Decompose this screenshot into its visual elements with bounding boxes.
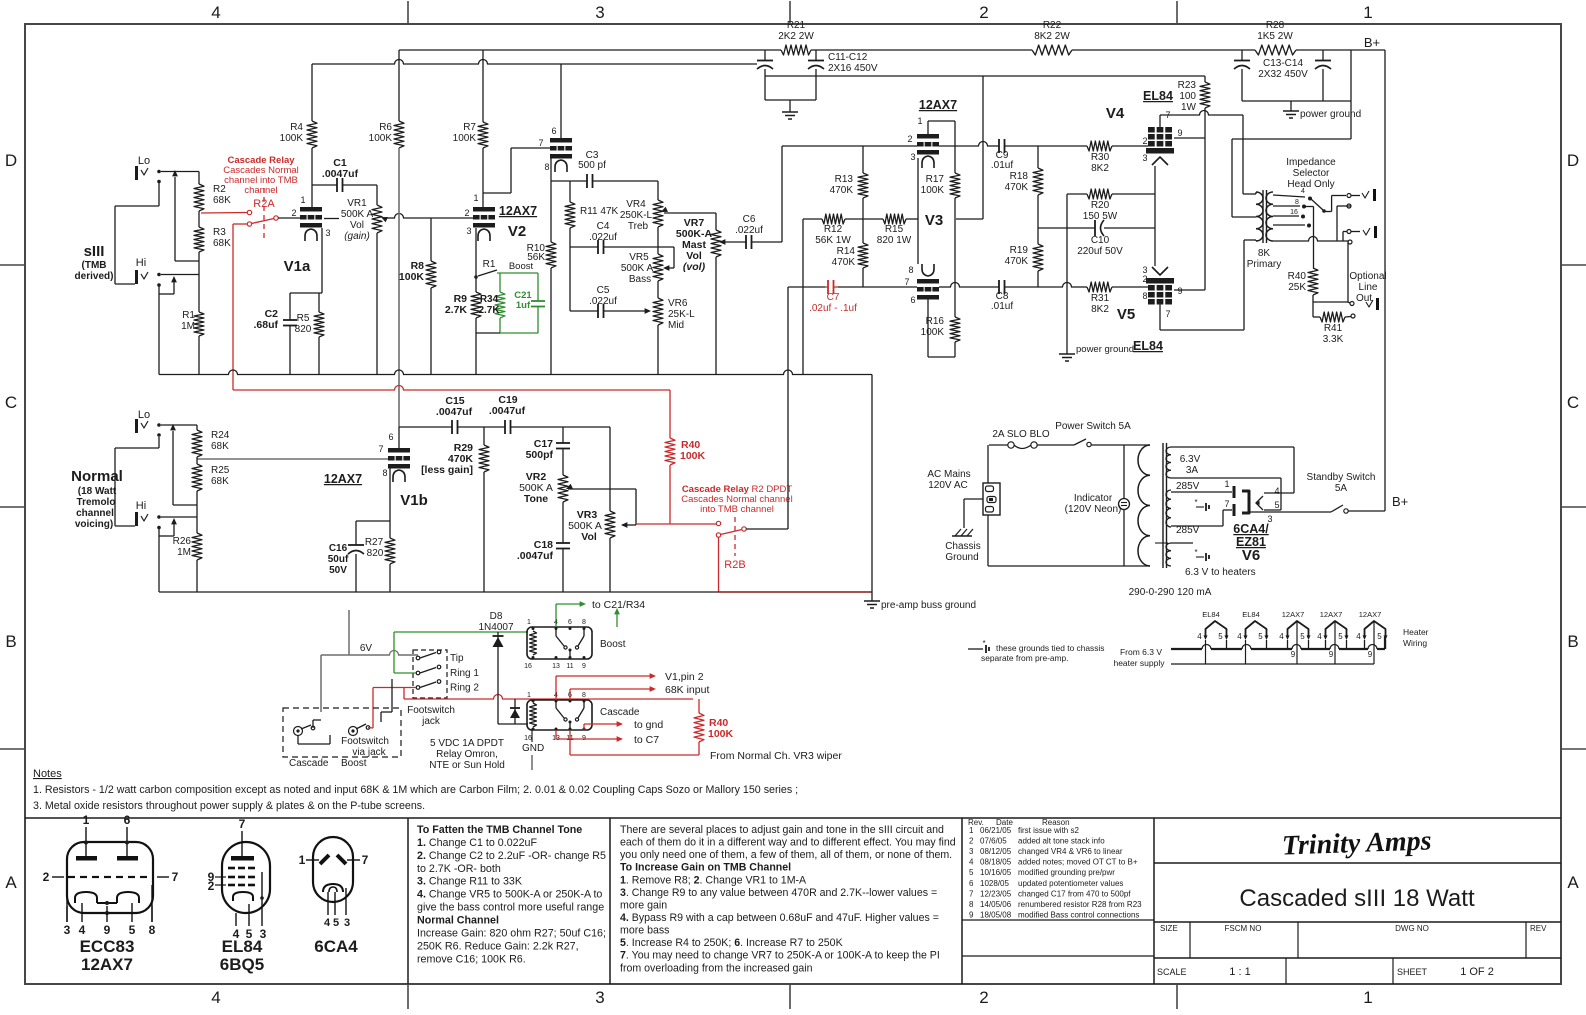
svg-text:1: 1 [527,619,531,626]
svg-text:16: 16 [524,663,532,670]
wire R2B common down [718,537,720,592]
resistor R3 [198,211,200,227]
capacitor C2 [289,293,291,320]
svg-text:56K: 56K [527,252,545,263]
svg-text:to C7: to C7 [634,734,659,746]
svg-text:A: A [5,873,17,892]
resistor R12 [803,218,822,220]
svg-text:R1: R1 [483,259,496,270]
svg-text:2: 2 [979,988,988,1007]
svg-text:Increase Gain: 820 ohm R27; 50: Increase Gain: 820 ohm R27; 50uf C16; [417,927,606,939]
relay Boost [527,627,592,659]
svg-text:5: 5 [1258,632,1263,641]
svg-text:AC Mains: AC Mains [927,469,970,480]
svg-text:06/21/05: 06/21/05 [980,826,1012,835]
svg-text:R30: R30 [1091,152,1110,163]
svg-text:100K: 100K [453,133,477,144]
HV center tap [1196,506,1204,508]
svg-text:B+: B+ [1392,494,1408,509]
wire shorting arrow 1 [174,177,176,261]
resistor R9 [475,277,477,292]
wire boost green [497,272,538,274]
svg-text:renumbered resistor R28 from R: renumbered resistor R28 from R23 [1018,900,1142,909]
svg-text:Tip: Tip [450,653,464,664]
ground chassis [952,535,972,537]
svg-text:(gain): (gain) [344,231,370,242]
svg-text:From Normal Ch. VR3 wiper: From Normal Ch. VR3 wiper [710,750,842,762]
transformer OT primary [1256,192,1263,241]
svg-text:4: 4 [969,858,974,867]
wire V1b cathode [389,468,391,538]
resistor R10 [550,181,552,242]
lamp indicator [1123,445,1125,498]
grounds note [968,648,983,650]
arrow boost up green [616,612,618,627]
resistor R20 [1067,193,1087,195]
svg-text:separate from pre-amp.: separate from pre-amp. [981,653,1069,663]
svg-text:7: 7 [969,889,974,898]
svg-text:3: 3 [466,226,471,236]
resistor R5 [318,293,320,312]
svg-text:There are several places to ad: There are several places to adjust gain … [620,824,944,836]
svg-text:REV: REV [1530,924,1547,933]
svg-text:.0047uf: .0047uf [436,406,473,418]
resistor R40 25K [1308,268,1318,295]
svg-text:3: 3 [1142,153,1147,163]
svg-text:SIZE: SIZE [1160,924,1178,933]
svg-text:3: 3 [325,228,330,238]
svg-text:Footswitch: Footswitch [341,736,389,747]
capacitor C19 [504,420,506,434]
svg-text:R12: R12 [824,224,843,235]
svg-text:Selector: Selector [1293,168,1330,179]
wire 6V feed [348,610,350,655]
wire V3 cathode column [917,158,919,264]
wire C4 to VR5 wiper [673,247,675,268]
svg-text:sIII: sIII [84,243,105,260]
svg-text:2. Change C2 to 2.2uF -OR- ch: 2. Change C2 to 2.2uF -OR- change R5 [417,850,606,862]
svg-text:500K A: 500K A [341,209,374,220]
wire red ring2 [373,687,416,689]
wire shorting arrow 2 N [173,523,175,536]
svg-text:(TMB: (TMB [82,260,107,271]
screen supply rail [765,75,1205,77]
capacitor C17 [562,427,564,443]
svg-text:500 pf: 500 pf [578,160,606,171]
resistor R13 [862,146,864,173]
wire C15 C19 [458,426,506,428]
resistor R18 [1037,146,1039,168]
capacitor C1 [312,184,337,186]
resistor R15 [883,214,906,224]
triode V2 cathode follower [550,138,572,143]
svg-text:(vol): (vol) [683,261,706,273]
svg-text:R14: R14 [837,246,856,257]
svg-text:6V: 6V [360,643,373,654]
triode V1b [388,448,410,453]
svg-text:7: 7 [362,853,369,867]
svg-text:8: 8 [969,900,974,909]
footswitch box [283,708,401,757]
wire to V1a grid [278,217,301,219]
svg-text:from overloading from the incr: from overloading from the increased gain [620,962,813,974]
svg-text:16: 16 [524,735,532,742]
svg-text:1028/05: 1028/05 [980,879,1009,888]
svg-text:2.7K: 2.7K [445,304,468,316]
wire 6.3V loop [1171,446,1294,448]
svg-text:100K: 100K [369,133,393,144]
svg-text:7: 7 [172,870,179,884]
svg-text:2: 2 [1142,136,1147,146]
wire OT center tap to B+ [1232,216,1256,218]
wire relay common red [233,223,248,225]
svg-text:SCALE: SCALE [1157,967,1187,977]
svg-text:C4: C4 [597,221,610,232]
svg-text:1M: 1M [177,547,191,558]
svg-text:C7: C7 [827,292,840,303]
svg-text:470K: 470K [830,185,854,196]
svg-text:Power Switch 5A: Power Switch 5A [1055,421,1131,432]
capacitor C12 [815,50,817,60]
svg-text:1N4007: 1N4007 [478,622,513,633]
svg-text:Mid: Mid [668,320,684,331]
svg-text:Tremolo: Tremolo [77,497,116,508]
wire screen feed V3 [982,76,984,219]
svg-text:25K-L: 25K-L [668,309,695,320]
transformer OT secondary [1266,192,1273,241]
svg-text:EL84: EL84 [1242,610,1260,619]
resistor R6 [398,50,400,121]
svg-text:6CA4: 6CA4 [314,937,358,956]
svg-text:Normal Channel: Normal Channel [417,915,499,927]
svg-text:Optional: Optional [1349,271,1386,282]
svg-text:R5: R5 [297,313,310,324]
wire HV bottom to V6 pin7 [1171,525,1223,527]
svg-text:4: 4 [324,917,331,929]
svg-text:via jack: via jack [352,747,386,758]
wire speaker jacks [1351,195,1360,197]
svg-text:7. You may need to change VR7: 7. You may need to change VR7 to 250K-A … [620,950,940,962]
svg-text:Hi: Hi [136,257,146,269]
svg-text:4: 4 [1301,188,1305,195]
svg-text:6: 6 [969,879,974,888]
wire ring return N [158,437,160,448]
svg-text:channel: channel [76,508,114,519]
jack footswitch [413,650,447,698]
svg-text:4. Bypass R9 with a cap betwe: 4. Bypass R9 with a cap between 0.68uF a… [620,912,939,924]
heater CT symbol [1196,556,1204,558]
svg-text:FSCM NO: FSCM NO [1225,924,1262,933]
svg-text:3: 3 [910,152,915,162]
svg-text:4: 4 [1317,632,1322,641]
capacitor C16 [355,521,357,545]
svg-text:5: 5 [1274,500,1279,510]
ground power filter 1 [782,111,798,113]
svg-text:1: 1 [299,853,306,867]
svg-text:V4: V4 [1106,105,1125,122]
svg-text:jack: jack [421,716,441,727]
wire heater return [1171,663,1374,665]
svg-text:25K: 25K [1288,282,1306,293]
svg-text:2: 2 [1142,274,1147,284]
svg-text:1W: 1W [1181,102,1197,113]
wire Lo tip N [161,424,197,426]
resistor R41 [1320,312,1345,322]
svg-text:NTE or Sun Hold: NTE or Sun Hold [429,760,505,771]
svg-text:285V: 285V [1176,481,1200,492]
resistor R17 [950,173,960,198]
resistor R1 [194,312,204,336]
svg-text:56K 1W: 56K 1W [815,235,851,246]
svg-text:R26: R26 [173,536,192,547]
capacitor C7 [788,286,825,288]
svg-text:5: 5 [333,917,339,929]
wire mains neutral [987,515,989,566]
svg-text:2: 2 [969,837,974,846]
svg-text:1: 1 [1224,479,1229,489]
svg-text:100: 100 [1179,91,1196,102]
jack speaker 1 [1347,194,1351,198]
svg-text:give the bass control more use: give the bass control more useful range [417,902,604,914]
arrow to C21/R34 green [555,604,557,627]
svg-text:first issue with s2: first issue with s2 [1018,826,1079,835]
svg-text:4: 4 [211,3,220,22]
svg-text:each of them do it in a differ: each of them do it in a different way an… [620,837,956,849]
svg-text:68K: 68K [213,195,231,206]
wire Lo tip [161,171,199,173]
svg-text:R3: R3 [213,227,226,238]
wire mains hot [987,445,989,483]
svg-text:6.3 V to heaters: 6.3 V to heaters [1185,567,1256,578]
svg-text:Trinity Amps: Trinity Amps [1281,825,1432,861]
svg-text:8K2 2W: 8K2 2W [1034,31,1070,42]
wire heater main [1171,648,1202,650]
resistor R26 [192,533,202,560]
triode V2 [473,207,495,212]
transformer PT heater winding [1166,543,1171,566]
svg-text:V3: V3 [925,212,943,229]
wire plate supply line [312,63,395,65]
svg-text:*: * [1194,498,1197,507]
ground bus red segment [719,591,873,593]
svg-text:9: 9 [582,663,586,670]
svg-text:R2B: R2B [724,559,745,571]
wire jack ground to bus [158,294,160,375]
svg-text:to gnd: to gnd [634,719,663,731]
svg-text:C10: C10 [1091,235,1110,246]
svg-text:6CA4/: 6CA4/ [1233,522,1269,536]
resistor R23 [1204,76,1206,82]
svg-text:8: 8 [382,468,387,478]
svg-text:To Increase Gain on TMB Channe: To Increase Gain on TMB Channel [620,862,791,874]
svg-text:.022uf: .022uf [589,232,617,243]
triode V3 upper [917,134,939,139]
pentode V5 [1152,267,1168,275]
svg-text:R7: R7 [463,122,476,133]
svg-text:Hi: Hi [136,500,146,512]
resistor R40 relay red [698,699,700,713]
resistor R14 [858,243,868,268]
svg-text:C6: C6 [743,214,756,225]
transformer PT 6.3V winding [1166,447,1171,478]
svg-text:2K2 2W: 2K2 2W [778,31,814,42]
svg-text:.0047uf: .0047uf [322,168,359,180]
svg-text:added notes; moved OT CT to B+: added notes; moved OT CT to B+ [1018,858,1138,867]
capacitor C5 [570,310,598,312]
wire plate to CF grid [483,192,511,194]
svg-text:285V: 285V [1176,525,1200,536]
svg-text:R24: R24 [211,430,230,441]
svg-text:remove C16; 100K R6.: remove C16; 100K R6. [417,953,526,965]
svg-text:3: 3 [595,3,604,22]
svg-text:.68uf: .68uf [253,319,278,331]
svg-text:EL84: EL84 [1143,89,1173,103]
svg-text:Vol: Vol [581,531,597,543]
svg-text:EL84: EL84 [222,937,263,956]
svg-text:2: 2 [979,3,988,22]
svg-text:5: 5 [1218,632,1223,641]
svg-text:Footswitch: Footswitch [407,705,455,716]
svg-text:820: 820 [367,548,384,559]
wire red VR3 wiper [636,523,716,525]
arrow 68K input red [569,689,571,700]
svg-text:updated potentiometer values: updated potentiometer values [1018,879,1123,888]
svg-text:C5: C5 [597,285,610,296]
svg-text:1. Resistors - 1/2 watt carbon: 1. Resistors - 1/2 watt carbon compositi… [33,784,798,796]
svg-text:3A: 3A [1186,465,1199,476]
svg-text:7: 7 [538,138,543,148]
svg-text:6BQ5: 6BQ5 [220,955,264,974]
svg-text:C16: C16 [329,543,348,554]
wire plate column [954,121,956,173]
wire R40 to line out [1313,301,1348,303]
svg-text:5: 5 [969,868,974,877]
svg-text:Wiring: Wiring [1403,638,1427,648]
wire OT primary bottom [1255,240,1257,241]
jack speaker 2 [1347,230,1351,234]
transformer PT HV winding [1166,490,1171,527]
svg-text:100K: 100K [921,327,945,338]
ground pre-amp buss [871,592,873,601]
wire grid V1b [197,458,388,460]
svg-text:Bass: Bass [629,274,651,285]
svg-text:150 5W: 150 5W [1083,211,1118,222]
svg-text:9: 9 [1177,286,1182,296]
svg-text:100K: 100K [708,728,734,740]
svg-text:you only need one of them, a f: you only need one of them, a few of them… [620,849,952,861]
svg-text:100K: 100K [280,133,304,144]
svg-text:Notes: Notes [33,768,62,780]
resistor R21 [781,45,811,55]
svg-text:7: 7 [239,817,246,831]
svg-text:B: B [5,632,16,651]
jack line out [1350,302,1354,306]
svg-text:9: 9 [969,910,974,919]
svg-text:4. Change VR5 to 500K-A or 25: 4. Change VR5 to 500K-A or 250K-A to [417,889,602,901]
svg-text:R21: R21 [787,20,806,31]
resistor R4 [311,64,313,121]
svg-text:1 OF 2: 1 OF 2 [1460,966,1494,978]
svg-text:Lo: Lo [138,155,150,167]
svg-text:added alt tone stack info: added alt tone stack info [1018,837,1105,846]
svg-text:.0047uf: .0047uf [489,405,526,417]
svg-text:to 2.7K -OR- both: to 2.7K -OR- both [417,863,501,875]
svg-text:C13-C14: C13-C14 [1263,58,1303,69]
wire cathode column V4V5 [1154,166,1156,266]
svg-text:Vol: Vol [350,220,364,231]
svg-text:Relay Omron,: Relay Omron, [436,749,498,760]
wire from normal red [570,754,699,756]
svg-text:2: 2 [291,208,296,218]
svg-text:.0047uf: .0047uf [517,550,554,562]
svg-text:5 VDC 1A DPDT: 5 VDC 1A DPDT [430,738,504,749]
svg-text:8: 8 [544,162,549,172]
svg-text:12AX7: 12AX7 [81,955,133,974]
svg-text:12AX7: 12AX7 [919,98,957,112]
svg-text:C: C [1567,393,1579,412]
tube pinout EL84/6BQ5 [222,842,270,913]
svg-text:100K: 100K [921,185,945,196]
svg-text:Impedance: Impedance [1286,157,1336,168]
title block [1154,862,1561,864]
svg-text:R18: R18 [1010,171,1029,182]
svg-text:3. Change R9 to any value bet: 3. Change R9 to any value between 470R a… [620,887,937,899]
svg-text:Primary: Primary [1247,259,1281,270]
revision table [962,919,1154,921]
capacitor C8 [998,280,1000,294]
svg-text:VR4: VR4 [626,199,646,210]
svg-text:5: 5 [129,923,136,937]
wire V5 screen [1174,289,1205,291]
capacitor C4 [570,246,598,248]
svg-text:R34: R34 [480,294,499,305]
triode V1a [300,207,322,212]
svg-text:250K-L: 250K-L [620,210,653,221]
svg-text:220uf 50V: 220uf 50V [1077,246,1123,257]
pot VR3 volume [609,427,611,511]
svg-text:B: B [1567,632,1578,651]
svg-text:1K5 2W: 1K5 2W [1257,31,1293,42]
resistor R28 [1255,45,1296,55]
capacitor C11 [764,50,766,60]
svg-text:8: 8 [149,923,156,937]
svg-text:2X32 450V: 2X32 450V [1258,69,1308,80]
svg-text:08/18/05: 08/18/05 [980,858,1012,867]
wire R7 to V2 plate [482,148,484,207]
wire Hi tip [161,274,199,276]
svg-text:.01uf: .01uf [991,301,1013,312]
svg-text:5: 5 [1338,632,1343,641]
svg-text:68K: 68K [213,238,231,249]
svg-text:voicing): voicing) [75,519,113,530]
wire CF plate [560,64,562,138]
resistor R11 [569,181,571,202]
svg-text:*: * [982,639,985,648]
wire shorting arrow 1 N [172,431,174,505]
svg-text:3.3K: 3.3K [1323,334,1344,345]
resistor R30 [1087,141,1112,151]
svg-text:modified grounding pre/pwr: modified grounding pre/pwr [1018,868,1115,877]
diode D8 [497,632,499,724]
svg-text:8: 8 [582,619,586,626]
svg-text:R22: R22 [1043,20,1062,31]
wire VR4 wiper to VR7 [664,212,716,214]
zone ticks [407,1,409,24]
wire red relay feed [403,688,405,700]
svg-text:4: 4 [79,923,86,937]
switch selector arm [1311,199,1323,210]
resistor R2 [198,172,200,185]
